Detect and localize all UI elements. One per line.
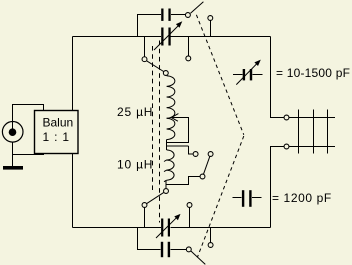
node contact C: [200, 174, 205, 179]
node contact A: [193, 152, 198, 157]
switch S3 arm B to C: [203, 156, 209, 174]
wire left vertical: [72, 37, 74, 228]
switch S2 throw contact stub: [187, 37, 189, 56]
coax connector J1: [2, 122, 23, 143]
inductor L1 bottom lead: [165, 180, 167, 188]
inductor L1 spine with taps: [166, 139, 168, 150]
switch S5 throw contact H: [208, 243, 213, 248]
inductor L1 upper section 25uH: [167, 76, 175, 119]
svg-text:10 µH: 10 µH: [117, 158, 153, 172]
switch S2 arm: [147, 61, 164, 72]
switch S2 pole contact: [142, 57, 147, 62]
switch S4 arm D to E: [147, 192, 164, 203]
legend fixed capacitor symbol: [233, 190, 262, 207]
wire C to coil bottom tap: [166, 177, 200, 185]
switch S1 contact: [185, 13, 190, 18]
gang linkage dashed diagonal lower: [197, 136, 244, 258]
node contact F: [187, 203, 192, 208]
node contact B: [208, 152, 213, 157]
wiper arrow tap on L1: [167, 114, 189, 143]
svg-text:Balun: Balun: [43, 116, 74, 130]
gang linkage dashed vertical left: [152, 46, 154, 194]
node coil bottom contact D: [164, 189, 169, 194]
capacitor C4 (bottom fixed, in switched branch): [138, 228, 187, 258]
switch S2 pole stub: [144, 37, 146, 57]
tap lower to contact A: [167, 146, 194, 154]
switch S5 arm: [191, 251, 205, 264]
balun T1: [35, 111, 79, 154]
svg-text:= 10-1500 pF: = 10-1500 pF: [276, 66, 350, 80]
gang linkage dashed vertical right: [159, 41, 161, 223]
legend variable capacitor symbol: [233, 60, 263, 85]
switch S4 pole contact E: [142, 203, 147, 208]
feeder terminal lower: [284, 144, 335, 149]
feeder ladder bars: [299, 110, 328, 154]
inductor L1 lower section 10uH: [164, 150, 174, 182]
switch S2 throw contact: [186, 56, 191, 61]
wire coax to balun bottom and ground: [13, 142, 44, 166]
svg-text:1 : 1: 1 : 1: [43, 130, 70, 144]
ground: [3, 166, 23, 170]
svg-text:= 1200 pF: = 1200 pF: [272, 191, 332, 205]
variable capacitor C2 (top, in series with top wire): [154, 21, 182, 50]
wire F to bottom wire: [189, 208, 191, 228]
switch S1 arm: [191, 2, 204, 14]
wire S5 throw to bottom wire: [210, 228, 212, 243]
svg-text:25 µH: 25 µH: [117, 105, 153, 119]
wire right vertical upper: [271, 37, 285, 118]
wire coax to balun top: [13, 105, 44, 133]
switch S1 throw contact: [208, 16, 213, 21]
variable capacitor C3 (bottom, in series with bottom wire): [156, 214, 181, 238]
wire E to bottom wire: [144, 208, 146, 228]
wire S1 throw to top wire: [209, 21, 211, 37]
inductor L1 middle section: [167, 118, 175, 139]
feeder terminal upper: [284, 115, 335, 120]
wire top main horizontal: [73, 36, 271, 38]
capacitor C1 (top fixed, in switched branch): [138, 9, 186, 37]
wire bottom main horizontal: [73, 227, 271, 229]
switch S5 contact G: [186, 247, 191, 252]
gang linkage dashed diagonal upper: [196, 15, 243, 135]
wire right vertical lower: [271, 147, 285, 228]
node coil top contact: [163, 71, 168, 76]
